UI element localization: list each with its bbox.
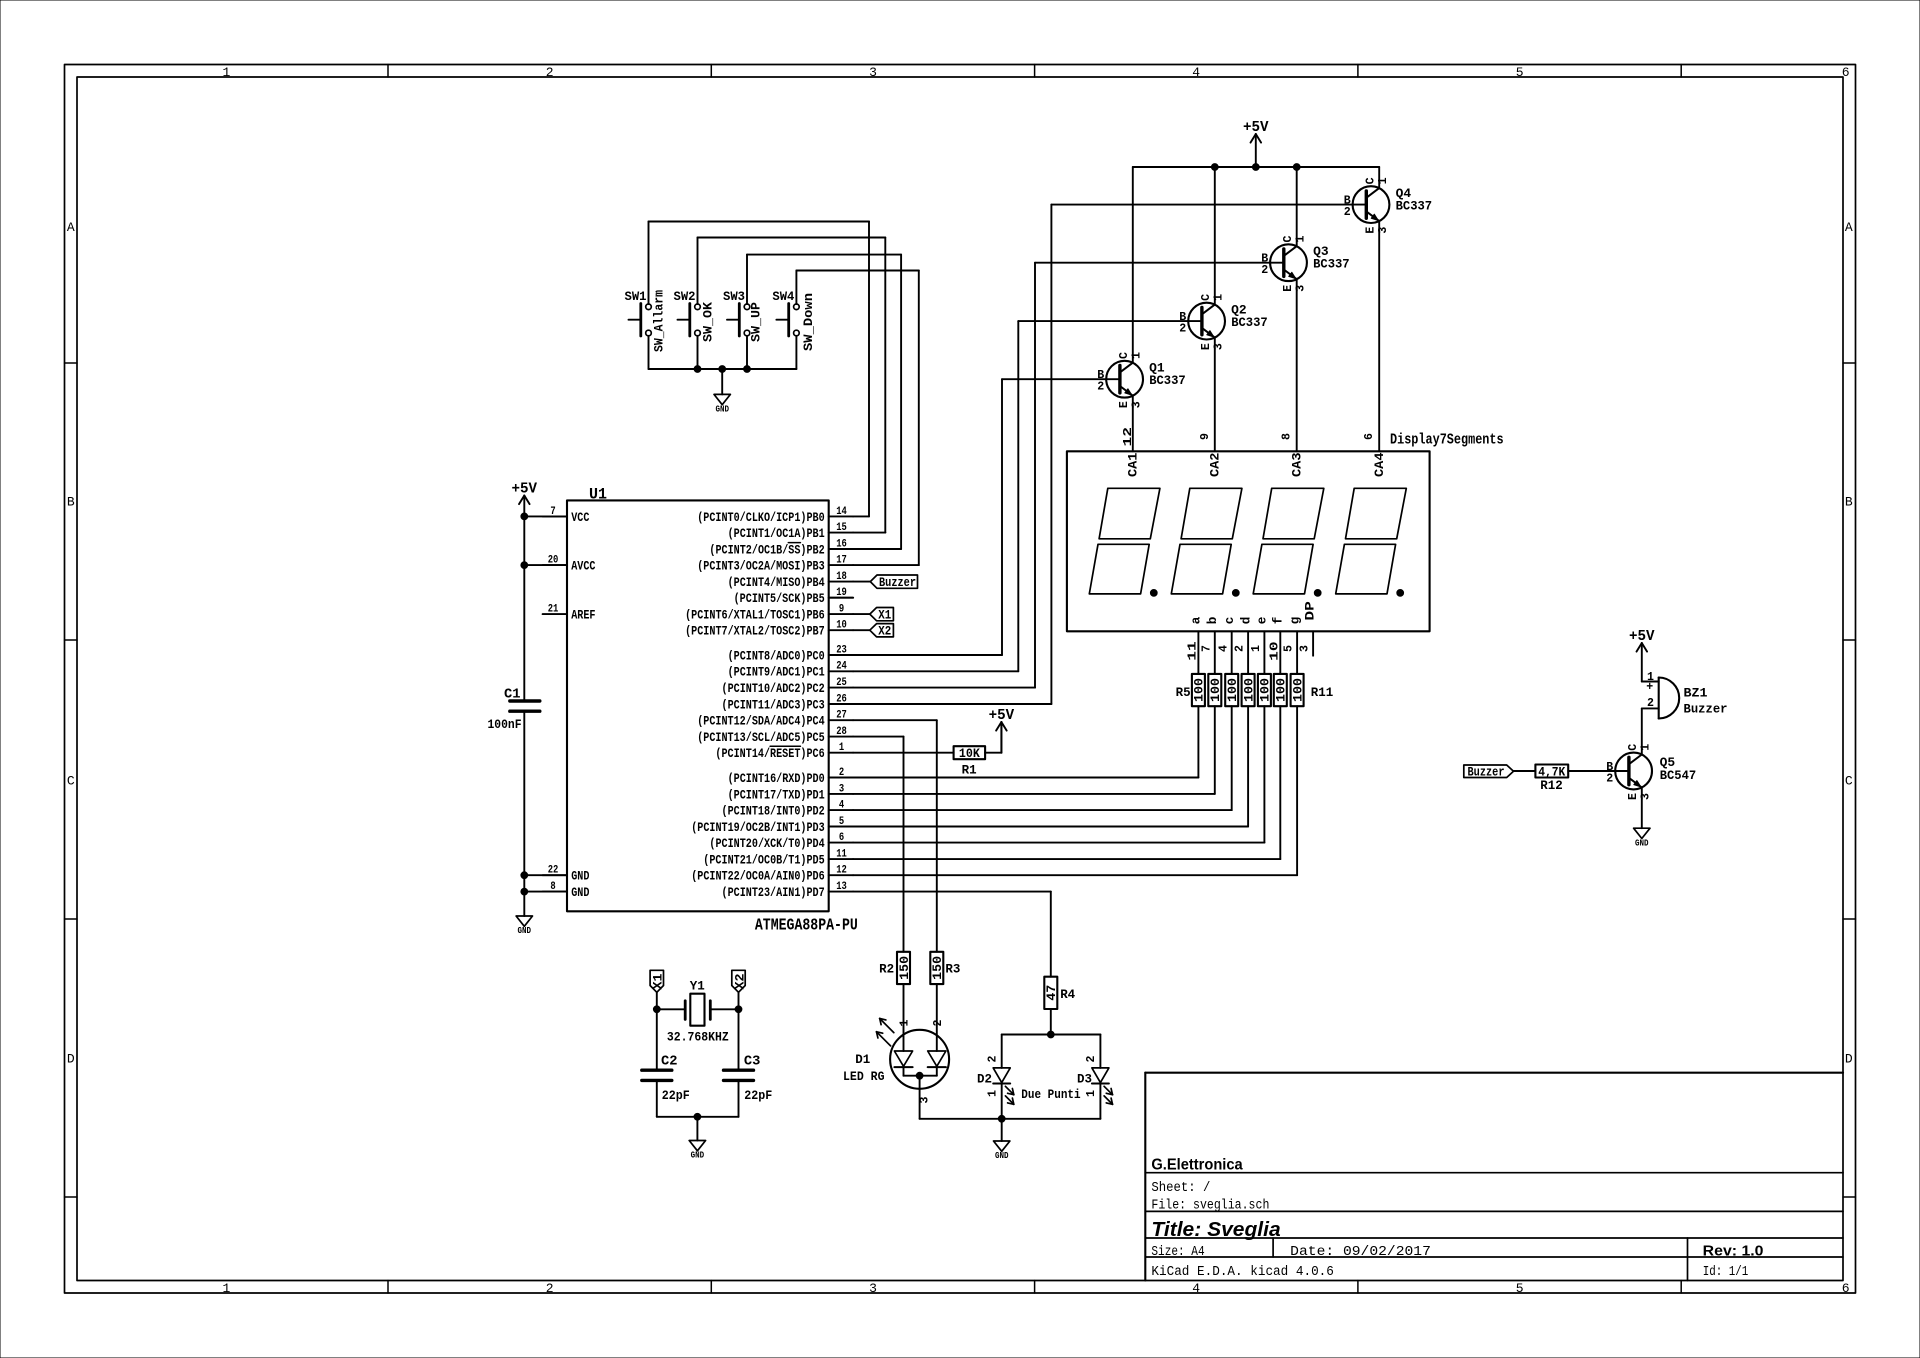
svg-text:(PCINT19/OC2B/INT1)PD3: (PCINT19/OC2B/INT1)PD3 — [691, 821, 825, 835]
svg-text:1: 1 — [1130, 352, 1143, 359]
svg-text:BC337: BC337 — [1149, 374, 1186, 388]
svg-text:A: A — [1845, 220, 1853, 235]
svg-text:CA3: CA3 — [1290, 453, 1304, 478]
svg-text:9: 9 — [1199, 433, 1212, 440]
svg-text:+: + — [1646, 681, 1653, 694]
svg-text:3: 3 — [1294, 285, 1307, 292]
svg-text:SW_OK: SW_OK — [702, 302, 716, 342]
svg-text:(PCINT8/ADC0)PC0: (PCINT8/ADC0)PC0 — [728, 649, 825, 663]
svg-text:2: 2 — [546, 1281, 554, 1296]
svg-text:GND: GND — [995, 1151, 1009, 1161]
svg-text:LED RG: LED RG — [843, 1070, 885, 1084]
svg-text:27: 27 — [836, 710, 847, 722]
svg-text:100: 100 — [1275, 678, 1289, 702]
svg-text:1: 1 — [222, 1281, 230, 1296]
svg-text:47: 47 — [1045, 985, 1059, 1001]
svg-text:(PCINT20/XCK/T0)PD4: (PCINT20/XCK/T0)PD4 — [709, 837, 825, 851]
svg-text:(PCINT17/TXD)PD1: (PCINT17/TXD)PD1 — [728, 788, 825, 802]
svg-text:D1: D1 — [855, 1053, 870, 1067]
svg-text:C: C — [1364, 177, 1377, 184]
svg-text:100: 100 — [1226, 678, 1240, 702]
svg-text:15: 15 — [836, 522, 847, 534]
svg-text:BC337: BC337 — [1396, 199, 1433, 213]
svg-text:Buzzer: Buzzer — [1468, 765, 1505, 779]
svg-text:5: 5 — [1516, 1281, 1524, 1296]
svg-text:BZ1: BZ1 — [1684, 686, 1708, 700]
svg-text:R3: R3 — [945, 962, 960, 976]
svg-text:(PCINT6/XTAL1/TOSC1)PB6: (PCINT6/XTAL1/TOSC1)PB6 — [685, 609, 825, 623]
svg-text:24: 24 — [836, 661, 847, 673]
svg-text:GND: GND — [715, 405, 729, 415]
svg-text:11: 11 — [836, 849, 847, 861]
svg-text:d: d — [1239, 617, 1253, 625]
svg-text:2: 2 — [1606, 773, 1613, 786]
svg-text:25: 25 — [836, 677, 847, 689]
svg-text:R12: R12 — [1540, 779, 1563, 793]
svg-text:100: 100 — [1291, 678, 1305, 702]
svg-text:1: 1 — [1250, 645, 1263, 652]
svg-text:SW_Allarm: SW_Allarm — [652, 290, 666, 352]
svg-text:E: E — [1282, 285, 1295, 292]
svg-text:(PCINT11/ADC3)PC3: (PCINT11/ADC3)PC3 — [722, 698, 825, 712]
svg-text:(PCINT13/SCL/ADC5)PC5: (PCINT13/SCL/ADC5)PC5 — [697, 731, 825, 745]
svg-text:3: 3 — [1299, 645, 1312, 652]
svg-text:13: 13 — [836, 881, 847, 893]
svg-text:6: 6 — [1363, 433, 1376, 440]
svg-text:22pF: 22pF — [744, 1089, 772, 1103]
svg-text:GND: GND — [571, 870, 590, 884]
svg-text:150: 150 — [898, 956, 912, 980]
svg-text:(PCINT22/OC0A/AIN0)PD6: (PCINT22/OC0A/AIN0)PD6 — [691, 870, 825, 884]
svg-text:D3: D3 — [1077, 1072, 1092, 1086]
svg-text:12: 12 — [1122, 427, 1135, 447]
svg-text:C: C — [1845, 774, 1853, 789]
svg-text:4: 4 — [839, 800, 844, 812]
svg-text:Display7Segments: Display7Segments — [1390, 432, 1504, 449]
svg-text:2: 2 — [1085, 1055, 1098, 1062]
svg-text:2: 2 — [1344, 206, 1351, 219]
svg-text:GND: GND — [571, 886, 590, 900]
svg-text:+5V: +5V — [1243, 120, 1269, 136]
svg-text:e: e — [1256, 617, 1270, 625]
svg-text:5: 5 — [1283, 645, 1296, 652]
svg-text:GND: GND — [1635, 838, 1649, 848]
svg-text:5: 5 — [1516, 65, 1524, 80]
svg-text:2: 2 — [1261, 264, 1268, 277]
svg-text:D: D — [1845, 1052, 1853, 1067]
svg-text:C1: C1 — [504, 688, 521, 703]
svg-text:2: 2 — [546, 65, 554, 80]
svg-text:(PCINT4/MISO)PB4: (PCINT4/MISO)PB4 — [728, 576, 825, 590]
svg-text:2: 2 — [1647, 697, 1654, 710]
svg-text:10: 10 — [836, 620, 847, 632]
svg-text:BC547: BC547 — [1660, 769, 1697, 783]
svg-text:100: 100 — [1259, 678, 1273, 702]
svg-text:6: 6 — [1842, 1281, 1850, 1296]
svg-text:(PCINT14/RESET)PC6: (PCINT14/RESET)PC6 — [715, 747, 824, 761]
svg-text:R11: R11 — [1311, 686, 1334, 700]
svg-text:4: 4 — [1192, 1281, 1200, 1296]
svg-text:3: 3 — [869, 65, 877, 80]
svg-text:16: 16 — [836, 538, 847, 550]
svg-text:1: 1 — [1085, 1090, 1098, 1097]
svg-text:D: D — [67, 1052, 75, 1067]
svg-text:R1: R1 — [962, 764, 977, 778]
svg-text:BC337: BC337 — [1313, 258, 1350, 272]
svg-text:X2: X2 — [878, 624, 891, 638]
svg-text:R2: R2 — [879, 962, 894, 976]
svg-text:1: 1 — [222, 65, 230, 80]
svg-text:B: B — [1845, 495, 1853, 510]
svg-text:4,7K: 4,7K — [1538, 766, 1565, 780]
svg-text:R5: R5 — [1176, 686, 1191, 700]
svg-text:18: 18 — [836, 571, 847, 583]
svg-text:a: a — [1190, 616, 1204, 624]
svg-text:R4: R4 — [1060, 988, 1075, 1002]
svg-text:(PCINT21/OC0B/T1)PD5: (PCINT21/OC0B/T1)PD5 — [703, 854, 824, 868]
svg-text:E: E — [1364, 227, 1377, 234]
svg-text:10K: 10K — [959, 747, 980, 761]
svg-text:f: f — [1272, 617, 1286, 625]
svg-text:(PCINT0/CLKO/ICP1)PB0: (PCINT0/CLKO/ICP1)PB0 — [697, 511, 825, 525]
svg-text:100: 100 — [1209, 678, 1223, 702]
svg-text:C2: C2 — [661, 1055, 678, 1070]
svg-text:1: 1 — [986, 1090, 999, 1097]
svg-text:C: C — [67, 774, 75, 789]
svg-text:32.768KHZ: 32.768KHZ — [667, 1030, 729, 1044]
svg-text:3: 3 — [1130, 401, 1143, 408]
svg-text:1: 1 — [1294, 235, 1307, 242]
svg-text:SW1: SW1 — [625, 290, 647, 304]
svg-text:(PCINT23/AIN1)PD7: (PCINT23/AIN1)PD7 — [722, 886, 825, 900]
svg-text:17: 17 — [836, 555, 847, 567]
svg-text:E: E — [1200, 343, 1213, 350]
svg-text:12: 12 — [836, 865, 847, 877]
svg-text:150: 150 — [931, 956, 945, 980]
svg-text:CA4: CA4 — [1373, 452, 1387, 477]
svg-text:C3: C3 — [744, 1055, 761, 1070]
svg-text:(PCINT9/ADC1)PC1: (PCINT9/ADC1)PC1 — [728, 666, 825, 680]
svg-text:1: 1 — [1377, 177, 1390, 184]
svg-text:1: 1 — [1212, 294, 1225, 301]
svg-text:2: 2 — [839, 767, 844, 779]
svg-text:(PCINT12/SDA/ADC4)PC4: (PCINT12/SDA/ADC4)PC4 — [697, 715, 825, 729]
svg-text:BC337: BC337 — [1231, 316, 1268, 330]
svg-text:9: 9 — [839, 604, 844, 616]
svg-text:KiCad E.D.A. kicad 4.0.6: KiCad E.D.A. kicad 4.0.6 — [1151, 1265, 1334, 1280]
svg-text:1: 1 — [899, 1019, 912, 1026]
svg-text:Buzzer: Buzzer — [879, 576, 916, 590]
svg-text:3: 3 — [869, 1281, 877, 1296]
svg-text:AREF: AREF — [571, 609, 595, 623]
svg-text:X1: X1 — [652, 973, 666, 989]
svg-text:(PCINT10/ADC2)PC2: (PCINT10/ADC2)PC2 — [722, 682, 825, 696]
svg-text:g: g — [1288, 617, 1302, 625]
svg-text:2: 2 — [1097, 381, 1104, 394]
svg-text:SW_Down: SW_Down — [802, 293, 816, 351]
svg-text:1: 1 — [839, 742, 844, 754]
svg-text:C: C — [1200, 294, 1213, 301]
svg-text:2: 2 — [1179, 323, 1186, 336]
svg-text:Size: A4: Size: A4 — [1151, 1245, 1204, 1260]
svg-text:Due Punti: Due Punti — [1021, 1088, 1081, 1102]
svg-text:7: 7 — [1200, 645, 1213, 652]
svg-text:26: 26 — [836, 693, 847, 705]
svg-text:5: 5 — [839, 816, 844, 828]
svg-text:SW3: SW3 — [723, 290, 745, 304]
svg-text:C: C — [1118, 352, 1131, 359]
svg-text:Q5: Q5 — [1660, 756, 1676, 770]
svg-text:C: C — [1627, 744, 1640, 751]
svg-text:b: b — [1206, 617, 1220, 625]
svg-text:2: 2 — [932, 1019, 945, 1026]
svg-text:Id: 1/1: Id: 1/1 — [1703, 1265, 1749, 1280]
svg-text:+5V: +5V — [1629, 629, 1655, 645]
svg-text:CA1: CA1 — [1126, 452, 1140, 477]
svg-text:GND: GND — [518, 926, 532, 936]
svg-text:6: 6 — [839, 832, 844, 844]
svg-text:2: 2 — [986, 1055, 999, 1062]
svg-text:1: 1 — [1639, 744, 1652, 751]
svg-text:SW2: SW2 — [674, 290, 696, 304]
svg-text:(PCINT18/INT0)PD2: (PCINT18/INT0)PD2 — [722, 805, 825, 819]
svg-text:100nF: 100nF — [488, 718, 522, 732]
svg-text:(PCINT7/XTAL2/TOSC2)PB7: (PCINT7/XTAL2/TOSC2)PB7 — [685, 625, 825, 639]
svg-text:+5V: +5V — [512, 481, 538, 497]
svg-text:(PCINT2/OC1B/SS)PB2: (PCINT2/OC1B/SS)PB2 — [709, 543, 824, 557]
svg-text:Date: 09/02/2017: Date: 09/02/2017 — [1290, 1245, 1431, 1260]
svg-text:3: 3 — [839, 783, 844, 795]
svg-text:Sheet: /: Sheet: / — [1151, 1181, 1210, 1196]
svg-text:SW4: SW4 — [772, 290, 794, 304]
svg-text:22pF: 22pF — [662, 1089, 690, 1103]
svg-text:CA2: CA2 — [1208, 453, 1222, 478]
svg-text:(PCINT1/OC1A)PB1: (PCINT1/OC1A)PB1 — [728, 527, 825, 541]
svg-text:X1: X1 — [878, 608, 891, 622]
svg-text:6: 6 — [1842, 65, 1850, 80]
svg-text:(PCINT3/OC2A/MOSI)PB3: (PCINT3/OC2A/MOSI)PB3 — [697, 560, 825, 574]
svg-text:100: 100 — [1242, 678, 1256, 702]
svg-text:14: 14 — [836, 506, 847, 518]
svg-text:3: 3 — [1377, 227, 1390, 234]
svg-text:100: 100 — [1193, 678, 1207, 702]
svg-text:GND: GND — [691, 1151, 705, 1161]
svg-text:VCC: VCC — [571, 511, 590, 525]
svg-text:3: 3 — [919, 1096, 932, 1103]
svg-text:28: 28 — [836, 726, 847, 738]
svg-text:2: 2 — [1234, 645, 1247, 652]
svg-text:Title: Sveglia: Title: Sveglia — [1151, 1218, 1280, 1241]
svg-text:AVCC: AVCC — [571, 560, 596, 574]
svg-text:4: 4 — [1192, 65, 1200, 80]
svg-text:X2: X2 — [733, 974, 747, 990]
svg-text:(PCINT16/RXD)PD0: (PCINT16/RXD)PD0 — [728, 772, 825, 786]
svg-text:File: sveglia.sch: File: sveglia.sch — [1151, 1199, 1269, 1214]
svg-text:DP: DP — [1303, 601, 1317, 621]
svg-text:Buzzer: Buzzer — [1684, 702, 1728, 716]
svg-text:4: 4 — [1217, 645, 1230, 652]
svg-text:23: 23 — [836, 644, 847, 656]
svg-text:c: c — [1223, 617, 1237, 625]
svg-text:U1: U1 — [589, 486, 607, 504]
svg-text:B: B — [67, 495, 75, 510]
svg-text:(PCINT5/SCK)PB5: (PCINT5/SCK)PB5 — [734, 592, 825, 606]
svg-text:ATMEGA88PA-PU: ATMEGA88PA-PU — [755, 917, 858, 936]
svg-text:C: C — [1282, 235, 1295, 242]
svg-text:Rev: 1.0: Rev: 1.0 — [1703, 1242, 1764, 1259]
svg-text:E: E — [1627, 793, 1640, 800]
svg-text:21: 21 — [548, 604, 559, 616]
svg-text:Y1: Y1 — [690, 980, 705, 994]
svg-text:+5V: +5V — [989, 708, 1015, 724]
svg-text:D2: D2 — [977, 1072, 992, 1086]
svg-text:A: A — [67, 220, 75, 235]
svg-text:3: 3 — [1212, 343, 1225, 350]
svg-text:8: 8 — [1281, 433, 1294, 440]
svg-text:G.Elettronica: G.Elettronica — [1151, 1157, 1243, 1174]
svg-text:E: E — [1118, 401, 1131, 408]
svg-text:SW_UP: SW_UP — [750, 302, 764, 342]
